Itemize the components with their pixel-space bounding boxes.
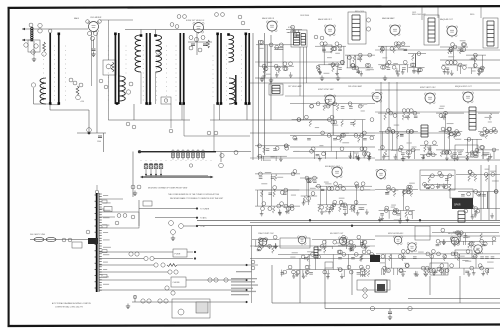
- wire B+ riser: [252, 33, 254, 160]
- part label R37: [170, 23, 174, 27]
- component cluster mixer link: [286, 25, 302, 37]
- dashed shield T4 mid: [175, 46, 178, 101]
- wire antenna stub: [22, 39, 33, 41]
- schematic border top: [8, 6, 500, 8]
- transformer horiz output: [469, 107, 476, 130]
- coil T2 secondary: [120, 76, 126, 101]
- tuner input box: [28, 40, 40, 52]
- hv cage box: [415, 226, 430, 240]
- dashed shield T2 left: [107, 46, 110, 101]
- svg-text:6CB6 1ST VIDEO IF: 6CB6 1ST VIDEO IF: [186, 20, 205, 22]
- slug adjust T1: [48, 29, 52, 33]
- wire supply 3: [99, 264, 154, 266]
- terminal dot: [194, 251, 196, 253]
- tuner contact strip: [172, 150, 205, 160]
- part label L3: [164, 99, 168, 103]
- ground: [269, 78, 273, 83]
- part label R14: [201, 36, 205, 40]
- core bar T6 left: [245, 33, 247, 104]
- antenna terminal arrow: [22, 28, 25, 30]
- wire bottom bus 3: [408, 298, 500, 300]
- ground: [133, 191, 137, 196]
- component cluster audio 4: [456, 169, 500, 219]
- wire B+ top left: [100, 19, 133, 21]
- svg-text:OSC-MIXER: OSC-MIXER: [90, 17, 102, 19]
- part label C12: [87, 128, 92, 133]
- transformer T7 secondary: [301, 34, 306, 46]
- wire: [220, 152, 222, 162]
- wire riser: [270, 35, 272, 120]
- core bar T4 right: [183, 33, 185, 104]
- wire: [133, 104, 135, 120]
- core foot T2: [116, 102, 119, 105]
- svg-text:6AF4: 6AF4: [74, 17, 80, 20]
- part label C2: [38, 23, 42, 27]
- output coupling box: [450, 189, 473, 198]
- component cluster V3 stage: [256, 40, 294, 78]
- core foot T1: [49, 102, 52, 105]
- part label R11: [183, 15, 187, 19]
- part label C16: [215, 13, 219, 17]
- part label R22: [144, 256, 148, 260]
- wire drop: [429, 276, 431, 295]
- part label C41: [132, 125, 136, 129]
- core foot T5b: [235, 102, 238, 105]
- ground: [126, 304, 130, 309]
- wire: [440, 59, 500, 61]
- svg-text:MOUNTED ON REAR OF TUNER FRON: MOUNTED ON REAR OF TUNER FRONT VIEW: [148, 186, 187, 189]
- terminal dot: [245, 264, 247, 266]
- balanced line symbol: [30, 237, 60, 241]
- svg-text:6AV6 AF AMP: 6AV6 AF AMP: [382, 17, 395, 20]
- part label R5: [69, 78, 73, 82]
- part label C5: [31, 83, 35, 87]
- wire antenna lead: [60, 239, 88, 241]
- part label C33: [224, 278, 228, 282]
- resistor R9: [111, 62, 114, 72]
- wire: [389, 309, 391, 312]
- wire supply 2: [99, 258, 144, 260]
- svg-text:TO B+: TO B+: [200, 226, 205, 228]
- wire: [140, 251, 173, 253]
- component cluster V4 stage: [315, 42, 346, 76]
- wire: [108, 119, 190, 121]
- wire supply 6: [99, 289, 245, 291]
- part label R27: [165, 286, 169, 290]
- wire left bus riser: [251, 226, 253, 303]
- tuner shaft end: [138, 150, 141, 153]
- wire link: [247, 264, 258, 266]
- tube V4: [324, 25, 335, 37]
- antenna terminal arrow: [22, 39, 25, 41]
- svg-text:TO TUNER: TO TUNER: [200, 209, 210, 211]
- AGC box: [104, 207, 112, 212]
- core foot T4: [179, 102, 182, 105]
- part label C6: [73, 81, 77, 85]
- terminal dot: [196, 225, 198, 227]
- wire riser right 1: [380, 82, 382, 160]
- svg-text:6AU6 SND IF 2: 6AU6 SND IF 2: [318, 18, 333, 21]
- part label R13: [189, 36, 193, 40]
- tube V15: [258, 238, 267, 247]
- svg-text:300 OHM TV LINE: 300 OHM TV LINE: [30, 234, 46, 236]
- component cluster V5 stage: [378, 42, 410, 76]
- part label R10: [129, 82, 133, 86]
- part label C23: [137, 185, 141, 189]
- filter can box: [430, 263, 448, 275]
- core foot T3: [149, 102, 152, 105]
- wire drop: [459, 276, 461, 303]
- part label C25: [179, 224, 184, 229]
- part label R12: [221, 13, 225, 17]
- part label C49: [175, 25, 179, 29]
- sync takeoff box: [269, 84, 283, 95]
- svg-text:6S4 VERT OUT: 6S4 VERT OUT: [330, 233, 344, 235]
- part label C15: [177, 15, 181, 19]
- part label pilot: [178, 309, 184, 315]
- core bar T1 right: [58, 33, 60, 104]
- wire T7 lead 2: [303, 47, 305, 120]
- ground: [260, 77, 264, 82]
- wire bottom bus 2: [325, 308, 500, 310]
- part label on bus: [370, 306, 374, 310]
- wire bottom bus 1: [272, 302, 500, 304]
- dashed shield T4 left: [165, 46, 168, 101]
- wire T1 foot tie: [50, 104, 59, 106]
- part label C24: [220, 153, 224, 157]
- interlock box: [357, 280, 390, 290]
- transformer T10: [487, 21, 494, 46]
- wire stub 3: [184, 225, 196, 227]
- wire cathode lead: [96, 33, 98, 133]
- capacitor C10: [92, 49, 96, 51]
- wire riser right 2: [388, 82, 390, 160]
- terminal strip components: [102, 200, 107, 277]
- wire: [290, 146, 375, 148]
- strip circuit box: [99, 212, 139, 228]
- component cluster output link: [466, 53, 486, 75]
- core cap T5 primary: [227, 33, 230, 36]
- wire strip tap 1: [99, 198, 123, 200]
- capacitor C38: [388, 312, 392, 314]
- power transformer box: [172, 299, 210, 318]
- wire bus B+ 2: [250, 222, 500, 224]
- part label C17: [195, 38, 199, 42]
- svg-text:6AQ5 AF OUT: 6AQ5 AF OUT: [440, 18, 454, 21]
- part label R17: [131, 185, 135, 189]
- wire sound row upper: [375, 49, 500, 51]
- wire row B upper: [375, 111, 500, 113]
- wire T4 foot tie: [180, 104, 183, 106]
- core bar T5 left: [217, 33, 219, 104]
- component cluster discriminator: [345, 53, 375, 76]
- part box: [143, 201, 152, 206]
- wire row B top bus: [250, 82, 500, 84]
- core bar T4 left: [179, 33, 181, 104]
- part label C8: [88, 32, 92, 36]
- part label R36: [99, 79, 103, 83]
- audio transformer box: [424, 15, 439, 45]
- core bar T3 right: [149, 33, 151, 104]
- part label R32: [126, 122, 130, 126]
- wire T4 drop: [181, 105, 183, 120]
- choke box: [171, 277, 186, 287]
- part label C40: [86, 230, 90, 234]
- rectifier block: [370, 255, 380, 262]
- wire AGC line: [77, 132, 106, 134]
- tube V3: [266, 21, 277, 33]
- tube V18: [393, 236, 402, 245]
- wire row B bus: [375, 89, 500, 91]
- core foot T5: [216, 102, 219, 105]
- svg-text:YOKE: YOKE: [457, 151, 464, 153]
- pin label V1-2: [98, 20, 102, 24]
- part label R20: [68, 238, 72, 242]
- component cluster row D3: [432, 228, 499, 248]
- B+ entry block: [88, 238, 98, 244]
- wire riser right 3: [396, 82, 398, 160]
- wire right riser 1: [480, 165, 482, 220]
- wire T3 foot tie: [147, 104, 150, 106]
- fuse holder box: [455, 250, 472, 258]
- core foot T4: [182, 102, 185, 105]
- capacitor C20: [203, 44, 207, 46]
- coil L1 antenna: [31, 28, 34, 42]
- part label R2: [24, 43, 28, 47]
- svg-text:R430: R430: [470, 14, 474, 16]
- wire: [210, 119, 250, 121]
- resistor R3: [43, 42, 46, 51]
- core cap T5: [216, 33, 219, 36]
- junction: [88, 132, 91, 135]
- wire sound row: [255, 61, 345, 63]
- svg-text:6BQ6 HORIZ OUT: 6BQ6 HORIZ OUT: [448, 233, 465, 235]
- svg-text:C421: C421: [412, 12, 416, 14]
- svg-text:6AU6 SND IF: 6AU6 SND IF: [262, 17, 275, 20]
- wire B+ feed drop 2: [437, 7, 439, 18]
- wire sync row lower: [250, 157, 375, 159]
- part label R50: [320, 36, 324, 40]
- tube V14 rect: [473, 245, 483, 255]
- svg-text:A PICTORIAL DIAGRAM SHOWING LO: A PICTORIAL DIAGRAM SHOWING LOCATION: [52, 302, 91, 305]
- part label R6: [79, 83, 83, 87]
- tube V10 sync sep: [324, 95, 335, 107]
- junction: [309, 219, 311, 221]
- part box: [325, 262, 333, 268]
- wire T5 foot tie: [218, 104, 221, 106]
- tube V11: [331, 167, 342, 179]
- part label R4: [42, 52, 46, 56]
- junction: [419, 219, 421, 221]
- capacitor C13: [98, 136, 102, 138]
- wire: [33, 88, 35, 104]
- ground: [320, 76, 324, 81]
- filter choke: [314, 247, 318, 258]
- terminal dot: [194, 257, 196, 259]
- svg-text:+150: +150: [80, 101, 84, 103]
- speaker box: [452, 198, 473, 209]
- svg-text:R410 C410: R410 C410: [355, 11, 364, 13]
- wire grid bus: [22, 28, 88, 30]
- core bar T6 right: [248, 33, 250, 104]
- component cluster deflection 4: [464, 137, 482, 160]
- component cluster audio 1: [255, 170, 300, 216]
- tube V1: [88, 21, 99, 33]
- part label R25: [174, 270, 178, 274]
- service note block: [231, 278, 258, 295]
- component cluster yoke parts: [478, 113, 499, 161]
- svg-text:6SN7 SYNC SEP: 6SN7 SYNC SEP: [318, 89, 334, 91]
- wire: [33, 41, 35, 56]
- wire: [216, 151, 251, 153]
- core foot T6: [245, 102, 248, 105]
- part label C26: [171, 230, 176, 235]
- terminal dot: [196, 217, 198, 219]
- wire sync row: [285, 95, 375, 97]
- wire coil return: [140, 72, 142, 104]
- svg-text:2ND VIDEO AMP: 2ND VIDEO AMP: [348, 85, 363, 88]
- part label tuner: [189, 164, 192, 167]
- wire: [34, 103, 51, 105]
- wire: [49, 104, 51, 110]
- wire: [187, 251, 193, 253]
- svg-text:6SN7 HORIZ AFC: 6SN7 HORIZ AFC: [388, 232, 404, 235]
- core foot T5: [220, 102, 223, 105]
- wire: [155, 30, 157, 36]
- core bar T3 left: [146, 33, 148, 104]
- schematic border left: [8, 7, 10, 327]
- terminal dot: [245, 301, 247, 303]
- tube V6: [446, 26, 457, 38]
- part label: [133, 295, 137, 299]
- part label C37: [363, 288, 367, 292]
- svg-text:COMPLETE DIAL CORD & AC PG: COMPLETE DIAL CORD & AC PG: [55, 306, 83, 309]
- core foot T3: [145, 102, 148, 105]
- wire: [250, 132, 375, 134]
- dashed shield T5 left: [212, 56, 215, 97]
- component cluster deflection 3: [420, 141, 438, 160]
- output transformer box: [483, 18, 498, 48]
- wire: [183, 104, 185, 136]
- part label R15: [198, 48, 202, 52]
- ground: [336, 76, 340, 81]
- transformer vert output: [421, 125, 428, 137]
- wire drop: [351, 270, 353, 295]
- part label C35: [141, 299, 145, 303]
- wire strip tap 3: [99, 216, 115, 218]
- wire: [246, 104, 248, 120]
- component cluster deflection 2: [436, 106, 464, 161]
- svg-text:FUSE: FUSE: [175, 254, 181, 256]
- svg-text:12AU7 VERT OSC: 12AU7 VERT OSC: [258, 232, 275, 235]
- service note title: [236, 271, 252, 272]
- resistor R16: [207, 40, 210, 48]
- wire grid lead: [93, 39, 95, 48]
- part label R26: [214, 278, 218, 282]
- wire supply 7: [132, 301, 245, 303]
- part label C7: [76, 95, 81, 100]
- dashed shield T1 mid: [53, 46, 56, 101]
- part label C29: [150, 256, 154, 260]
- wire row B mid: [375, 132, 460, 134]
- svg-text:SPKR: SPKR: [454, 204, 461, 207]
- component cluster filter: [421, 171, 454, 191]
- wire T5 drop: [218, 105, 220, 120]
- tube V16: [297, 236, 306, 245]
- pin label V1-1: [86, 20, 90, 24]
- svg-text:6BQ6 HORIZ OUT: 6BQ6 HORIZ OUT: [455, 86, 472, 88]
- ground: [91, 52, 95, 57]
- svg-text:6SN7 VERT OSC: 6SN7 VERT OSC: [420, 87, 436, 89]
- svg-text:CHOKE: CHOKE: [173, 282, 181, 284]
- core bar T2 left: [114, 33, 116, 104]
- wire: [108, 75, 110, 120]
- terminal strip labels: [103, 195, 111, 285]
- wire supply 5: [99, 279, 170, 281]
- wire coil return: [155, 72, 157, 104]
- part label R21: [129, 252, 133, 256]
- wire IF bus: [125, 29, 250, 31]
- wire B+ feed drop 3: [480, 7, 482, 18]
- component cluster sync left: [255, 144, 290, 161]
- dashed shield T1 right: [64, 46, 67, 101]
- svg-text:1500: 1500: [97, 141, 101, 143]
- dashed shield T2 right: [125, 46, 128, 74]
- part label R23: [154, 263, 158, 267]
- part label R19: [169, 221, 174, 226]
- wire video line: [184, 135, 250, 137]
- svg-text:1ST VIDEO AMP: 1ST VIDEO AMP: [288, 85, 302, 88]
- part label C45: [234, 151, 238, 155]
- wire T7 lead 3: [306, 47, 308, 83]
- wire audio row: [255, 189, 375, 191]
- wire plate lead: [91, 31, 93, 86]
- resistor R7: [76, 86, 79, 95]
- core cap T6: [245, 33, 248, 36]
- core bar T1 left: [49, 33, 51, 104]
- wire: [188, 41, 212, 43]
- part label C28: [135, 252, 139, 256]
- fuse box: [173, 249, 187, 257]
- component cluster audio link: [408, 52, 426, 74]
- wire: [140, 30, 142, 36]
- coil T1 secondary: [40, 78, 46, 104]
- wire drop: [299, 258, 301, 303]
- part box balun: [72, 242, 82, 248]
- tube V19: [450, 237, 459, 246]
- wire: [108, 20, 110, 60]
- part label R18: [219, 163, 224, 168]
- capacitor C19: [191, 44, 195, 46]
- tube V9: [372, 92, 382, 103]
- part label C21: [366, 18, 370, 22]
- part label C14: [156, 50, 160, 54]
- part label C31: [168, 270, 172, 274]
- wire: [96, 185, 98, 190]
- wire T6 foot tie: [246, 104, 249, 106]
- part label on bus: [408, 306, 412, 310]
- part label C9: [94, 32, 98, 36]
- component cluster audio 3: [375, 183, 418, 224]
- part box trap: [323, 45, 332, 52]
- tube V12: [376, 169, 386, 180]
- part label C4: [31, 50, 35, 54]
- resistor R24: [167, 264, 177, 267]
- coil T5 primary: [229, 35, 234, 62]
- power block fill: [377, 284, 385, 291]
- part label C46: [123, 214, 127, 218]
- transformer T7 primary: [294, 33, 300, 46]
